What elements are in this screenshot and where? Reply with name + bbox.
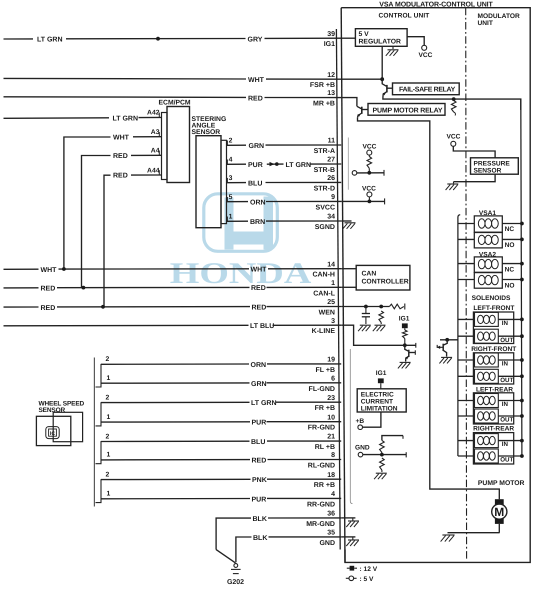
resistor R3 WEN pull-down — [379, 311, 384, 324]
svg-text:1: 1 — [229, 214, 233, 221]
svg-text:GRN: GRN — [251, 381, 267, 388]
svg-text:14: 14 — [327, 261, 335, 268]
ground G202 — [227, 564, 244, 587]
wire STR-D BLU (pin 3) — [227, 175, 342, 188]
resistor R5 sense upper — [380, 440, 385, 454]
svg-text:9: 9 — [331, 194, 335, 201]
solenoid group LEFT-REAR — [458, 386, 524, 424]
svg-text:LT BLU: LT BLU — [250, 323, 274, 330]
resistor R2 WEN series — [389, 304, 404, 310]
VCC 5V pull-up for steering signals — [363, 143, 377, 155]
svg-text:CONTROL UNIT: CONTROL UNIT — [379, 13, 430, 20]
svg-text:3: 3 — [229, 175, 233, 182]
wire WEN inside — [341, 305, 389, 309]
svg-text:1: 1 — [107, 452, 111, 459]
pin 11 STR-A label — [314, 138, 335, 155]
svg-text:VCC: VCC — [362, 185, 376, 192]
svg-text:BLU: BLU — [248, 181, 262, 188]
pressure sensor U4 — [471, 158, 519, 175]
svg-text:OUT: OUT — [500, 377, 513, 384]
ground at SGND — [341, 221, 355, 229]
wire STR-B PUR to LT GRN (pin 4) — [227, 157, 342, 170]
svg-text:WHT: WHT — [248, 77, 265, 84]
wire 5V regulator to FSR +B node — [381, 46, 383, 79]
ECM/PCM box — [162, 107, 190, 183]
wire to ground G202 — [216, 550, 235, 563]
svg-text:MR +B: MR +B — [313, 101, 335, 108]
ground at transistor Q4 — [439, 357, 452, 363]
wire GND BLK (pin 35) — [236, 535, 341, 562]
svg-text:RED: RED — [113, 153, 128, 160]
svg-text:PUR: PUR — [252, 420, 267, 427]
svg-text:CAN-H: CAN-H — [312, 272, 335, 279]
svg-text:PRESSURE: PRESSURE — [474, 160, 511, 167]
pin 10 FR-GND label — [308, 414, 335, 431]
svg-text:ECM/PCM: ECM/PCM — [159, 100, 191, 107]
svg-text:VCC: VCC — [419, 52, 433, 59]
pin 26 STR-D label — [314, 175, 335, 192]
wire RL-GND RED (pin 8) — [101, 458, 341, 465]
svg-text:WEN: WEN — [319, 310, 335, 317]
wire pressure sensor to ground — [454, 174, 496, 182]
ground at resistor R6 — [374, 473, 387, 479]
svg-text:2: 2 — [106, 394, 110, 401]
ground at capacitor C1 — [358, 325, 371, 331]
svg-text:SENSOR: SENSOR — [474, 168, 502, 175]
svg-text:25: 25 — [327, 299, 335, 306]
svg-text:WHT: WHT — [41, 267, 58, 274]
svg-text:IG1: IG1 — [324, 41, 335, 48]
solenoid VSA2 NC — [458, 257, 524, 274]
SOLENOIDS label — [472, 295, 511, 302]
svg-text:HONDA: HONDA — [170, 257, 312, 290]
ground at resistor R3 — [373, 325, 386, 331]
resistor R6 sense lower — [380, 458, 385, 472]
wheel speed sensor label — [39, 400, 85, 414]
svg-text:PUMP MOTOR RELAY: PUMP MOTOR RELAY — [373, 107, 443, 114]
svg-text:1: 1 — [331, 280, 335, 287]
svg-text:4: 4 — [331, 491, 335, 498]
svg-text:LT GRN: LT GRN — [37, 37, 63, 44]
svg-text:CURRENT: CURRENT — [361, 398, 393, 405]
svg-text:BLK: BLK — [253, 535, 267, 542]
pin 1 CAN-L label — [313, 280, 335, 297]
svg-text:IN: IN — [502, 441, 509, 448]
svg-text:LT GRN: LT GRN — [286, 162, 312, 169]
solenoid VSA1 NO — [458, 233, 524, 250]
wire VCC to pressure sensor — [453, 146, 495, 158]
modulator boundary dash-dot line — [465, 8, 468, 561]
svg-text:23: 23 — [327, 395, 335, 402]
pin 6 FL-GND label — [309, 375, 336, 392]
svg-text:FR +B: FR +B — [315, 405, 335, 412]
resistor R1 steering pull-up — [367, 155, 372, 173]
faint internal vertical line — [350, 349, 352, 504]
svg-text:K-LINE: K-LINE — [312, 328, 336, 335]
pin 3 K-LINE label — [312, 318, 336, 335]
svg-text:IG1: IG1 — [376, 370, 387, 377]
pin 18 RR +B label — [314, 472, 335, 489]
wire K-LINE inside — [341, 325, 416, 348]
solenoid group RIGHT-FRONT — [458, 346, 524, 384]
wire limiter output stub — [382, 436, 403, 441]
svg-text:LIMITATION: LIMITATION — [361, 405, 398, 412]
wire CAN-H WHT (pin 14) — [4, 267, 342, 275]
svg-text:A3: A3 — [151, 129, 160, 136]
wire FSR +B inside — [341, 77, 384, 81]
svg-text:GRN: GRN — [249, 143, 265, 150]
svg-text:26: 26 — [327, 175, 335, 182]
svg-text:SENSOR: SENSOR — [192, 129, 221, 136]
svg-text:A4: A4 — [151, 148, 160, 155]
wire RR +B PNK (pin 18) — [101, 477, 341, 484]
wheel speed sensor pair 2 bracket — [96, 394, 111, 426]
svg-text:PNK: PNK — [252, 477, 267, 484]
pump motor label — [478, 480, 525, 487]
IG1 12V supply for current limiter — [376, 370, 387, 389]
svg-text:OUT: OUT — [500, 457, 513, 464]
CAN controller U2 — [356, 265, 410, 290]
svg-text:18: 18 — [327, 472, 335, 479]
wire STR-A GRN (pin 2) — [227, 138, 342, 151]
wire FL-GND GRN (pin 6) — [101, 381, 341, 388]
wire GND terminal stub — [363, 452, 406, 457]
svg-text:39: 39 — [327, 31, 335, 38]
5V regulator U1 — [355, 29, 407, 47]
svg-text:RED: RED — [41, 305, 56, 312]
svg-text:RED: RED — [252, 304, 267, 311]
svg-text:RED: RED — [248, 95, 263, 102]
wheel speed sensor pair 4 bracket — [96, 471, 111, 502]
svg-text:WHT: WHT — [113, 135, 130, 142]
wire A3 WHT — [64, 129, 162, 269]
svg-text:RL-GND: RL-GND — [308, 463, 335, 470]
svg-text:RR-GND: RR-GND — [307, 501, 335, 508]
wire SVCC inside — [341, 198, 384, 204]
svg-text:+B: +B — [356, 418, 365, 425]
svg-text:OUT: OUT — [500, 417, 513, 424]
svg-text:5 V: 5 V — [359, 31, 370, 38]
svg-text:12: 12 — [327, 72, 335, 79]
ground at MR-GND — [341, 518, 359, 527]
terminal +B — [356, 418, 365, 429]
wire SGND BRN (pin 1) — [227, 214, 342, 227]
modulator unit label — [478, 13, 520, 27]
pin 14 CAN-H label — [312, 261, 335, 278]
pin 12 FSR +B label — [310, 72, 335, 89]
svg-text:IC: IC — [50, 431, 55, 437]
svg-text:19: 19 — [327, 357, 335, 364]
wheel speed sensor box — [36, 412, 82, 445]
svg-text:LEFT-FRONT: LEFT-FRONT — [473, 305, 514, 312]
VSA2 label — [479, 251, 497, 258]
svg-text:NO: NO — [505, 242, 515, 249]
wire CAN-L RED (pin 1) — [4, 285, 342, 293]
svg-text:ELECTRIC: ELECTRIC — [361, 391, 394, 398]
svg-text:SVCC: SVCC — [316, 204, 335, 211]
wire A44 RED — [104, 167, 162, 306]
svg-text:2: 2 — [106, 433, 110, 440]
svg-text:RIGHT-REAR: RIGHT-REAR — [473, 426, 514, 433]
wire IG1 to 5V regulator — [341, 37, 355, 39]
wire RR-GND PUR (pin 4) — [101, 496, 341, 503]
svg-text:PUMP MOTOR: PUMP MOTOR — [478, 480, 525, 487]
svg-text:RIGHT-FRONT: RIGHT-FRONT — [471, 346, 516, 353]
svg-text:BRN: BRN — [250, 219, 265, 226]
pin 21 RL +B label — [315, 434, 335, 451]
wheel speed sensor harness line — [93, 358, 95, 507]
svg-text:6: 6 — [331, 375, 335, 382]
IG1 12V supply for K-line — [399, 316, 410, 330]
wheel speed sensor pair 3 bracket — [96, 433, 111, 463]
pin 13 MR +B label — [313, 90, 335, 107]
wire FSR +B WHT (pin 12) — [4, 77, 342, 84]
VSA1 label — [479, 210, 497, 217]
VSA modulator-control unit title — [379, 2, 493, 9]
svg-text:G202: G202 — [227, 579, 244, 586]
svg-text:1: 1 — [107, 414, 111, 421]
svg-text:CONTROLLER: CONTROLLER — [362, 279, 409, 286]
svg-text:13: 13 — [327, 90, 335, 97]
svg-text:CAN-L: CAN-L — [313, 290, 335, 297]
resistor R4 K-line pull-up — [403, 330, 408, 345]
svg-text:10: 10 — [327, 414, 335, 421]
pin 39 IG1 label — [324, 31, 335, 48]
svg-text:RED: RED — [41, 286, 56, 293]
svg-text:RR +B: RR +B — [314, 482, 335, 489]
ground at pressure sensor — [446, 182, 459, 190]
pin 27 STR-B label — [314, 157, 335, 174]
ground at pump motor — [441, 535, 455, 542]
svg-text:IN: IN — [502, 360, 509, 367]
transistor Q2 pump motor relay driver — [357, 106, 368, 117]
svg-text:GND: GND — [319, 540, 335, 547]
svg-text:27: 27 — [327, 157, 335, 164]
wire RL +B BLU (pin 21) — [101, 439, 341, 446]
svg-text:WHT: WHT — [251, 267, 268, 274]
wire SVCC ORN (pin 5) — [227, 194, 342, 207]
wire relay supply rail to solenoid bus — [383, 97, 521, 110]
svg-text:BLK: BLK — [253, 516, 267, 523]
svg-text:BLU: BLU — [251, 439, 265, 446]
legend 5V symbol — [346, 576, 374, 583]
svg-text:CAN: CAN — [362, 271, 377, 278]
svg-text:ORN: ORN — [251, 362, 267, 369]
wire MR-GND BLK (pin 36) — [216, 516, 341, 550]
pin 34 SGND label — [315, 214, 335, 231]
wire K-LINE LT BLU (pin 3) — [4, 323, 342, 330]
connector pin column line — [336, 29, 340, 550]
svg-text:RED: RED — [252, 458, 267, 465]
svg-text:MR-GND: MR-GND — [306, 521, 335, 528]
VCC 5V symbol at SVCC — [362, 185, 376, 201]
svg-text:RED: RED — [251, 285, 266, 292]
wire pump motor to ground — [448, 532, 500, 534]
svg-text:NO: NO — [505, 282, 515, 289]
faint bracket line near VCC — [347, 138, 349, 190]
pin 4 RR-GND label — [307, 491, 335, 508]
capacitor C1 WEN filter — [362, 307, 370, 325]
svg-text:PUR: PUR — [252, 496, 267, 503]
Honda watermark text — [170, 257, 312, 290]
steering angle sensor label — [192, 116, 227, 136]
svg-text:11: 11 — [328, 138, 336, 145]
resistor fail-safe relay coil — [451, 101, 456, 116]
svg-text:FSR +B: FSR +B — [310, 82, 335, 89]
wire MR +B RED (pin 13) — [4, 95, 342, 102]
wire A4 RED — [82, 148, 162, 288]
svg-text:2: 2 — [229, 138, 233, 145]
wire MR +B inside — [341, 98, 357, 107]
pin 23 FR +B label — [315, 395, 336, 412]
legend 12V symbol — [347, 566, 378, 573]
wire A42 LT GRN — [4, 109, 162, 122]
svg-text:SGND: SGND — [315, 224, 335, 231]
pin 35 GND label — [319, 530, 335, 547]
svg-text:5: 5 — [229, 194, 233, 201]
solenoid VSA1 NC — [458, 216, 524, 233]
svg-text:FR-GND: FR-GND — [308, 425, 335, 432]
svg-text:8: 8 — [331, 452, 335, 459]
svg-text:35: 35 — [327, 530, 335, 537]
solenoid right bus from fail-safe relay — [521, 99, 522, 456]
pin 36 MR-GND label — [306, 511, 335, 528]
Honda watermark logo — [204, 194, 277, 252]
wire WEN RED (pin 25) — [4, 304, 342, 312]
wire FR +B LT GRN (pin 23) — [101, 400, 341, 407]
svg-text:PUR: PUR — [248, 162, 263, 169]
wire FL +B ORN (pin 19) — [101, 362, 341, 369]
control unit label — [379, 13, 430, 20]
svg-text:ORN: ORN — [250, 200, 266, 207]
solenoid group LEFT-FRONT — [458, 305, 524, 344]
steering angle sensor box — [196, 136, 227, 228]
svg-text:A44: A44 — [147, 167, 160, 174]
svg-text:36: 36 — [327, 511, 335, 518]
svg-text:IN: IN — [502, 320, 509, 327]
svg-text:STR-D: STR-D — [314, 185, 335, 192]
svg-text:: 12 V: : 12 V — [360, 566, 378, 573]
svg-text:STR-A: STR-A — [314, 148, 335, 155]
svg-text:A42: A42 — [147, 109, 160, 116]
ground at 5V regulator — [386, 46, 399, 56]
wire CAN-L inside — [341, 286, 356, 288]
svg-text:1: 1 — [107, 375, 111, 382]
svg-text:2: 2 — [106, 356, 110, 363]
svg-text:SOLENOIDS: SOLENOIDS — [472, 295, 511, 302]
transistor Q1 fail-safe relay driver — [382, 79, 392, 97]
ground at GND — [341, 537, 359, 546]
svg-text:1: 1 — [107, 491, 111, 498]
svg-text:RL +B: RL +B — [315, 444, 335, 451]
ground at transistor Q3 — [398, 362, 411, 368]
wire pump motor relay output bus — [358, 118, 500, 500]
svg-text:NC: NC — [505, 226, 515, 233]
pin 19 FL +B label — [315, 357, 335, 374]
solenoid group RIGHT-REAR — [458, 426, 524, 464]
svg-text:: 5 V: : 5 V — [360, 576, 375, 583]
pump motor relay K2 — [368, 104, 445, 116]
svg-text:LT GRN: LT GRN — [113, 115, 139, 122]
pin 25 WEN label — [319, 299, 335, 316]
svg-text:NC: NC — [505, 266, 515, 273]
svg-text:M: M — [494, 505, 504, 519]
svg-text:4: 4 — [229, 157, 233, 164]
svg-text:GND: GND — [355, 444, 370, 451]
svg-text:34: 34 — [327, 214, 335, 221]
svg-text:VCC: VCC — [363, 143, 377, 150]
svg-text:FL-GND: FL-GND — [309, 386, 335, 393]
VSA modulator-control unit box — [341, 8, 530, 563]
electric current limitation U3 — [357, 389, 406, 413]
svg-text:2: 2 — [106, 471, 110, 478]
svg-text:GRY: GRY — [248, 36, 263, 43]
wire 5V regulator to VCC — [407, 37, 424, 46]
wire +B to current limiter — [363, 412, 381, 427]
svg-text:FL +B: FL +B — [315, 367, 335, 374]
ECM/PCM label — [159, 100, 191, 107]
pump motor M1 — [492, 499, 507, 533]
solenoid VSA2 NO — [458, 273, 524, 290]
svg-text:UNIT: UNIT — [478, 20, 493, 27]
svg-text:IG1: IG1 — [399, 316, 410, 323]
wheel speed sensor pair 1 bracket — [96, 356, 111, 387]
terminal GND — [355, 444, 370, 457]
svg-text:STR-B: STR-B — [314, 167, 335, 174]
transistor Q4 solenoid driver — [437, 338, 458, 357]
solenoid left bus — [458, 215, 460, 456]
wire CAN-H inside — [341, 268, 356, 270]
svg-text:VCC: VCC — [447, 133, 461, 140]
svg-text:RED: RED — [113, 173, 128, 180]
wire FR-GND PUR (pin 10) — [101, 420, 341, 427]
pin 9 SVCC label — [316, 194, 336, 211]
VCC 5V symbol at pressure sensor — [447, 133, 461, 146]
svg-text:21: 21 — [327, 434, 335, 441]
svg-text:IN: IN — [502, 401, 509, 408]
transistor Q3 K-line driver — [405, 345, 416, 361]
pin 8 RL-GND label — [308, 452, 335, 469]
svg-text:REGULATOR: REGULATOR — [359, 39, 402, 46]
fail-safe relay K1 — [393, 83, 460, 95]
svg-text:LT GRN: LT GRN — [251, 400, 277, 407]
svg-text:FAIL-SAFE RELAY: FAIL-SAFE RELAY — [399, 87, 456, 94]
svg-text:OUT: OUT — [500, 337, 513, 344]
node STR reference stub — [352, 170, 384, 176]
svg-text:3: 3 — [331, 318, 335, 325]
VCC 5V symbol at regulator — [419, 45, 433, 59]
wire IG1 LT GRN/GRY (pin 39) — [4, 36, 342, 43]
